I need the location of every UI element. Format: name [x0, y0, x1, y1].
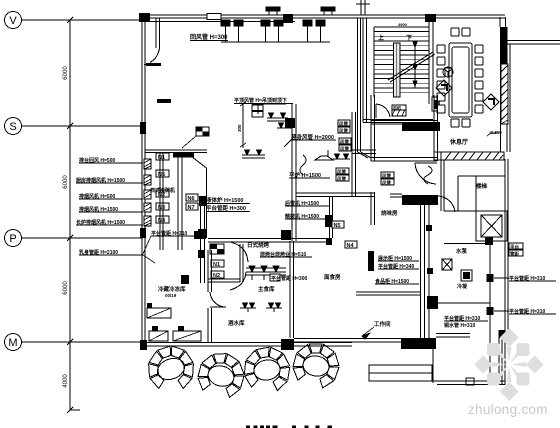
- logo square SW: [487, 373, 500, 386]
- svg-text:主食库: 主食库: [258, 285, 275, 293]
- leader center: [284, 140, 336, 147]
- dim tick 5: [67, 407, 73, 413]
- riser black sq 3: [198, 250, 205, 258]
- work room leader: [362, 327, 374, 339]
- door threshold bar: [146, 63, 161, 66]
- conf chairs bottom: [451, 119, 470, 127]
- label right 1: [509, 275, 556, 282]
- stair newel rail: [394, 43, 401, 97]
- svg-text:风机: 风机: [393, 105, 401, 111]
- N5 box mid: [332, 221, 344, 229]
- dim tick 1: [67, 17, 73, 23]
- svg-text:面食房: 面食房: [324, 273, 341, 281]
- axis bubble S: [5, 118, 22, 135]
- dim end stub: [70, 409, 80, 411]
- door arc pump room: [437, 196, 455, 212]
- svg-text:回风管 H=300: 回风管 H=300: [190, 33, 228, 41]
- axis line M: [22, 341, 144, 343]
- svg-text:风管: 风管: [337, 169, 346, 176]
- top wall third line: [143, 21, 295, 23]
- svg-text:液体炉 H=1500: 液体炉 H=1500: [206, 196, 243, 204]
- dim tick 3: [67, 235, 73, 241]
- label 食品柜: [375, 278, 419, 285]
- booth cluster 4: [293, 344, 339, 388]
- FCU black bar top: [402, 122, 439, 131]
- stage rect: [369, 365, 432, 381]
- label boxes 381: [381, 172, 394, 187]
- svg-text:S: S: [9, 121, 16, 133]
- logo ray E: [512, 362, 527, 367]
- inner wall x330: [330, 196, 333, 238]
- inner wall top-left vertical: [155, 18, 157, 48]
- conf far right line: [509, 44, 511, 152]
- N3 label box: [156, 203, 169, 211]
- svg-text:N5: N5: [158, 172, 165, 178]
- svg-text:工作间: 工作间: [374, 320, 391, 328]
- cold room door arc: [210, 292, 226, 307]
- label pair mid: [444, 315, 488, 329]
- conf chairs left column: [437, 45, 445, 113]
- diffuser A1: [221, 20, 230, 26]
- rack 2: [149, 331, 168, 341]
- svg-text:N4: N4: [347, 243, 355, 249]
- hatched equip block 5: [144, 216, 151, 226]
- conf chairs top: [451, 28, 470, 36]
- label right 2: [509, 308, 556, 315]
- grille pair low2: [266, 303, 282, 312]
- bottom-right black bar: [401, 338, 436, 349]
- right top extension lines: [507, 41, 560, 45]
- svg-text:铜水管 H=310: 铜水管 H=310: [444, 322, 475, 329]
- grille row center: [246, 266, 286, 280]
- conf chairs right column: [475, 45, 483, 113]
- leader lines kitchen top: [252, 104, 286, 114]
- wall bar below door: [157, 99, 171, 103]
- column below conf: [430, 122, 440, 131]
- FCU black bar bottom: [402, 195, 438, 205]
- hatched equip block 4: [144, 203, 151, 212]
- logo square SE: [517, 373, 530, 386]
- svg-text:N5: N5: [334, 223, 341, 229]
- level mark -0.350: [487, 130, 502, 136]
- squiggle center1: [300, 155, 306, 175]
- conf wall black band: [501, 27, 508, 64]
- wall tick 1: [426, 225, 432, 231]
- svg-text:风管: 风管: [339, 121, 348, 128]
- outside label 3: [79, 193, 143, 200]
- svg-text:00/19: 00/19: [165, 293, 177, 298]
- room 面食房 walls: [208, 192, 375, 338]
- pump sq 2: [461, 270, 472, 281]
- stair right wall: [428, 22, 430, 104]
- diffuser collector line: [221, 41, 330, 43]
- duct lines along stair wall: [358, 18, 372, 158]
- riser tap 1: [487, 274, 510, 282]
- room wall h1: [352, 150, 376, 154]
- booth cluster 3: [244, 347, 289, 390]
- door leaf top-left: [150, 48, 160, 63]
- N2 box lower: [211, 271, 224, 279]
- svg-text:冷藏冷冻库: 冷藏冷冻库: [158, 285, 186, 293]
- squiggle break right: [424, 166, 432, 184]
- black rect 194: [194, 231, 203, 239]
- kitchen riser lines 0: [160, 153, 163, 250]
- outside label 1: [79, 157, 143, 164]
- conf table: [449, 43, 472, 117]
- wall stub above at x=362: [356, 0, 370, 15]
- svg-text:4900: 4900: [398, 22, 408, 27]
- fan symbol: [443, 67, 453, 77]
- logo ray NE: [511, 349, 523, 363]
- outside label 6: [79, 249, 155, 263]
- door arc 休息厅 exit: [415, 163, 437, 184]
- work room FCU: [427, 296, 438, 309]
- door jamb right of stair: [432, 97, 439, 111]
- axis line P: [22, 237, 144, 239]
- kitchen riser lines 1: [178, 153, 182, 250]
- right mid wall connectors: [390, 194, 402, 197]
- line to riser: [438, 302, 490, 304]
- under-stair FCU box: [392, 105, 406, 117]
- svg-text:N7: N7: [188, 205, 195, 211]
- rack 3 cap: [178, 326, 184, 331]
- svg-text:风管: 风管: [382, 180, 391, 187]
- duct line work room: [356, 292, 420, 295]
- riser black sq 1: [199, 196, 206, 206]
- pump sq 1: [442, 259, 452, 270]
- grille sym k2: [277, 123, 292, 128]
- svg-text:平台管距 H=300: 平台管距 H=300: [206, 204, 246, 212]
- svg-text:下: 下: [406, 35, 412, 42]
- right corridor walls: [441, 152, 508, 385]
- door arc A: [230, 242, 248, 262]
- wall tick 2: [427, 268, 433, 274]
- label 平台管距 H=300 box: [270, 274, 307, 282]
- leader: [289, 177, 330, 179]
- svg-text:N3: N3: [158, 205, 165, 211]
- left wall inner: [144, 22, 146, 342]
- label box pair u1: [338, 120, 350, 135]
- supply diamond 1: [436, 80, 452, 96]
- logo ray W: [492, 362, 507, 367]
- dimension line vertical: [69, 20, 71, 410]
- svg-text:300: 300: [237, 124, 242, 132]
- stair top line: [374, 26, 429, 28]
- center duct risers: [292, 104, 296, 241]
- svg-text:-0.350: -0.350: [489, 130, 502, 135]
- rack 1 end: [147, 303, 152, 308]
- cold room wall v: [208, 250, 212, 343]
- svg-text:休息厅: 休息厅: [449, 138, 468, 146]
- elevator shaft: [476, 211, 507, 241]
- logo ray NW: [496, 349, 508, 363]
- svg-text:上: 上: [378, 34, 384, 42]
- booth cluster 1: [149, 346, 194, 389]
- dim tick 4: [67, 339, 73, 345]
- svg-text:N4: N4: [158, 218, 166, 224]
- label 平台管距340: [378, 263, 419, 270]
- bottom column left: [140, 340, 147, 350]
- hatched equip block 3: [144, 190, 151, 199]
- bottom column mid: [281, 339, 294, 350]
- black bar 326: [326, 239, 332, 245]
- svg-text:日式烧烤: 日式烧烤: [247, 241, 270, 249]
- svg-text:风管: 风管: [382, 173, 391, 180]
- svg-text:M: M: [8, 337, 17, 349]
- N1 box lower: [211, 260, 224, 268]
- logo diamond W: [474, 356, 492, 374]
- stair arrows: [413, 41, 417, 88]
- logo ray SE: [511, 366, 523, 380]
- svg-text:平顶风管 H=吊顶到顶下: 平顶风管 H=吊顶到顶下: [234, 97, 287, 104]
- svg-text:烧味房: 烧味房: [381, 209, 398, 217]
- label box pair u2: [339, 138, 351, 153]
- svg-text:N1: N1: [158, 155, 165, 161]
- riser tap 2: [487, 307, 510, 315]
- stair well left: [373, 27, 375, 97]
- top wall outer: [143, 14, 505, 16]
- stair bottom wall: [363, 120, 440, 123]
- bottom right L duct: [433, 349, 505, 385]
- inside label 平台管距: [142, 230, 196, 256]
- 具 label boxes right: [509, 243, 523, 258]
- rack 1: [147, 308, 171, 318]
- axis line S: [22, 125, 144, 127]
- stair break line: [388, 52, 435, 82]
- svg-text:6000: 6000: [63, 175, 69, 189]
- N4 box center: [345, 241, 357, 249]
- svg-text:水泵: 水泵: [456, 247, 468, 255]
- riser black sq 2: [198, 229, 206, 239]
- svg-text:4000: 4000: [63, 374, 69, 388]
- outside label 5: [76, 219, 143, 226]
- rack 2 cap: [152, 326, 158, 331]
- grille sym c1: [333, 154, 350, 159]
- dim tick 2: [67, 123, 73, 129]
- door arc B: [230, 272, 246, 290]
- logo square NW: [487, 343, 500, 356]
- column mid-left: [285, 118, 295, 128]
- bottom cut-off title text tops: [246, 426, 332, 428]
- N2 label box: [156, 190, 169, 198]
- kitchen mid wall vertical: [206, 168, 208, 238]
- logo diamond S: [500, 382, 519, 401]
- hood symbol: [315, 150, 333, 160]
- svg-text:P: P: [9, 233, 16, 245]
- counter top line: [145, 150, 207, 153]
- diffuser B1: [261, 20, 270, 26]
- text 烧烤台烧烤 H=510: [260, 251, 312, 258]
- left wall black segment 2: [140, 228, 146, 238]
- svg-text:6000: 6000: [63, 66, 69, 80]
- diffuser C1: [303, 20, 312, 26]
- stair treads: [374, 32, 429, 93]
- column 280: [281, 230, 291, 240]
- outside label 2: [76, 177, 143, 184]
- counter diagonal edge: [187, 153, 207, 168]
- axis bubble P: [5, 230, 22, 247]
- logo diamond N: [500, 328, 519, 347]
- bottom wall: [142, 339, 401, 347]
- diffuser C2: [316, 20, 325, 26]
- lines from black bar right: [436, 334, 470, 338]
- logo ray SW: [496, 366, 508, 380]
- logo ray S: [507, 367, 512, 382]
- stair left wall: [362, 18, 364, 122]
- logo ray N: [507, 347, 512, 362]
- supply diamond 2: [483, 94, 499, 110]
- label 后雷机: [285, 200, 330, 207]
- column top-left: [139, 13, 150, 22]
- axis bubble V: [5, 12, 22, 29]
- svg-text:平台: 平台: [510, 244, 519, 251]
- outside label 4: [79, 206, 143, 213]
- svg-text:V: V: [9, 15, 17, 27]
- svg-text:N1: N1: [213, 262, 220, 268]
- grille pair low1: [240, 303, 256, 312]
- right riser vertical: [489, 243, 491, 385]
- diffuser A2: [234, 20, 243, 26]
- conf right wall: [500, 27, 502, 152]
- top-right corner wall turn: [500, 17, 506, 27]
- label boxes center: [336, 168, 349, 183]
- kitchen riser lines 2: [201, 199, 205, 283]
- column stair-right: [425, 14, 436, 22]
- black bar 181: [181, 275, 189, 284]
- vertical FCU bar: [368, 251, 374, 271]
- hatched equip block 2: [144, 175, 151, 185]
- roof cap 2: [321, 7, 335, 11]
- svg-text:N6: N6: [188, 196, 195, 202]
- diffuser B2: [274, 20, 283, 26]
- logo square NE: [517, 343, 530, 356]
- svg-text:楼梯: 楼梯: [476, 182, 488, 190]
- booth cluster 2: [198, 354, 244, 398]
- under-stair door arc: [376, 104, 390, 118]
- grille sym k1: [267, 113, 288, 121]
- hatch band below conf: [434, 152, 504, 160]
- N1 label box: [156, 153, 169, 161]
- svg-text:风管: 风管: [337, 176, 346, 183]
- axis line V: [22, 19, 144, 21]
- svg-text:6000: 6000: [63, 281, 69, 295]
- roof cap 1: [266, 7, 280, 11]
- svg-text:平台管距 H=300: 平台管距 H=300: [271, 275, 307, 282]
- room 烧味房 walls: [371, 95, 438, 161]
- FCU checker box kitchen top: [182, 127, 209, 148]
- riser top black sq: [485, 237, 493, 245]
- counter black bar: [173, 153, 194, 158]
- svg-text:N2: N2: [213, 273, 220, 279]
- svg-text:风管: 风管: [339, 128, 348, 135]
- grille sym k3: [242, 150, 265, 158]
- right edge black thin bar: [499, 330, 505, 338]
- cold room wall h: [208, 244, 243, 282]
- N5 label box: [156, 170, 169, 178]
- black sq kitchen1: [325, 215, 332, 227]
- left wall outer: [141, 15, 143, 346]
- svg-text:风管: 风管: [340, 139, 349, 146]
- dim line below: [240, 102, 246, 148]
- logo diamond E: [526, 356, 544, 374]
- N7 label box: [186, 203, 198, 211]
- svg-text:风管: 风管: [340, 146, 349, 153]
- label 展示柜: [377, 255, 419, 262]
- N6 label box: [186, 194, 198, 202]
- top wall inner: [143, 17, 505, 19]
- column top-mid: [283, 14, 293, 23]
- FCU checker box lower: [210, 244, 224, 254]
- svg-text:酒水库: 酒水库: [228, 319, 245, 327]
- work room east wall: [421, 196, 430, 343]
- rack 3: [173, 331, 201, 341]
- svg-text:管距: 管距: [510, 251, 519, 258]
- conf wall hatched band: [501, 64, 508, 124]
- room wall v1: [352, 112, 356, 196]
- window in top wall: [207, 14, 221, 20]
- hatched equip block 1: [144, 159, 151, 169]
- bottom right structure verticals: [499, 330, 502, 385]
- axis bubble M: [5, 334, 22, 351]
- small black stub: [434, 100, 438, 109]
- N4 label box: [156, 216, 169, 224]
- svg-text:冷凝: 冷凝: [457, 283, 468, 290]
- left wall black segment: [140, 122, 146, 134]
- svg-text:zhulong.com: zhulong.com: [468, 402, 548, 417]
- label 精披机: [285, 213, 330, 220]
